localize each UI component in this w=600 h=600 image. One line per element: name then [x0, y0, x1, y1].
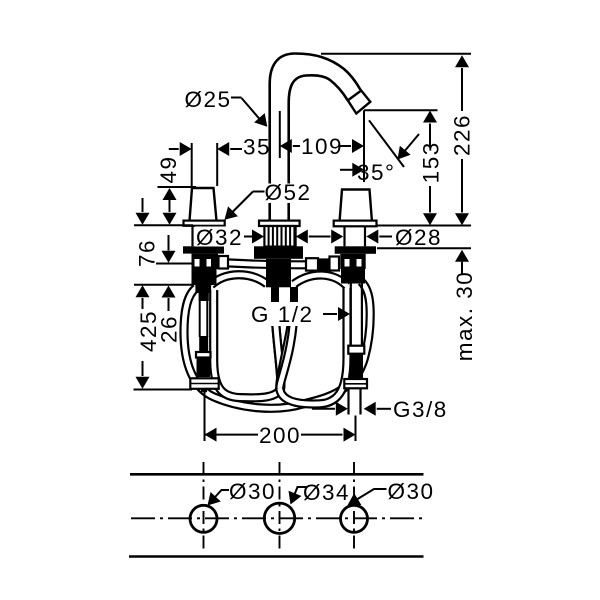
svg-text:76: 76	[135, 239, 160, 267]
svg-text:Ø30: Ø30	[388, 479, 435, 504]
svg-text:G3/8: G3/8	[393, 397, 448, 422]
svg-text:49: 49	[156, 155, 181, 183]
svg-text:35: 35	[243, 135, 271, 160]
svg-text:G 1/2: G 1/2	[251, 302, 314, 327]
svg-text:109: 109	[301, 134, 343, 159]
svg-text:26: 26	[157, 315, 182, 343]
svg-text:Ø32: Ø32	[196, 225, 243, 250]
svg-text:226: 226	[450, 114, 475, 156]
svg-text:max. 30: max. 30	[452, 271, 477, 362]
svg-text:Ø25: Ø25	[185, 87, 232, 112]
svg-text:35°: 35°	[357, 160, 396, 185]
svg-text:Ø30: Ø30	[229, 479, 276, 504]
svg-text:153: 153	[419, 141, 444, 183]
svg-text:Ø28: Ø28	[395, 225, 442, 250]
svg-text:200: 200	[259, 423, 301, 448]
svg-text:Ø34: Ø34	[303, 480, 350, 505]
svg-text:Ø52: Ø52	[265, 180, 312, 205]
